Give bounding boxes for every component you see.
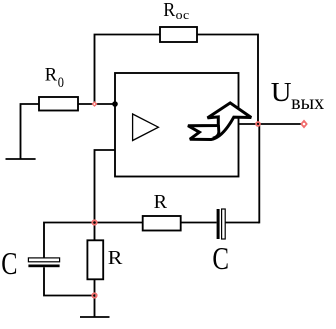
wire C left to bottom node [44, 267, 95, 295]
capacitor C left bottom plate solid [28, 265, 59, 268]
op-amp box U1 [115, 73, 239, 177]
resistor Roc [160, 27, 197, 42]
svg-text:ос: ос [176, 7, 190, 22]
big bent arrow symbol [188, 103, 251, 140]
node B marker [92, 220, 96, 224]
wire output [239, 123, 305, 125]
svg-text:R: R [154, 191, 168, 213]
svg-text:R: R [163, 0, 176, 21]
resistor R bottom [143, 216, 181, 231]
wire node B to vertical R [94, 223, 96, 241]
wire input2 stub down [95, 150, 116, 223]
svg-text:C: C [212, 240, 229, 276]
svg-text:C: C [1, 245, 17, 281]
svg-text:R: R [108, 247, 123, 269]
wire bottom node to left C branch [44, 223, 95, 259]
resistor R0 [39, 97, 78, 111]
svg-text:0: 0 [58, 75, 64, 91]
node output marker [256, 122, 260, 126]
node C marker [92, 293, 96, 297]
wire R0 to op-amp input [78, 103, 115, 105]
capacitor C right plate1 solid [217, 209, 220, 239]
svg-text:R: R [45, 65, 58, 86]
wire C to right vertical [225, 222, 259, 224]
amplifier triangle [133, 114, 159, 141]
wire bottom main left [95, 222, 143, 224]
capacitor C right plate2 hollow [222, 209, 226, 239]
terminal output diamond [300, 120, 308, 129]
resistor R vertical [87, 240, 103, 279]
ground left bar [6, 158, 36, 160]
wire R to C [181, 222, 217, 224]
wire Roc right down to output node [197, 35, 258, 125]
capacitor C left top plate hollow [28, 258, 59, 262]
node A marker [92, 101, 98, 107]
arrow fold line [213, 125, 219, 138]
wire feedback left vertical and top to Roc [95, 35, 161, 105]
wire output node down to bottom RC [258, 124, 259, 223]
wire ground to R0 [21, 104, 40, 159]
svg-text:вых: вых [291, 92, 324, 114]
svg-text:U: U [271, 77, 292, 107]
ground bottom bar [80, 316, 110, 318]
junction dot at box input [112, 101, 118, 107]
wire R vertical to ground [94, 279, 96, 317]
